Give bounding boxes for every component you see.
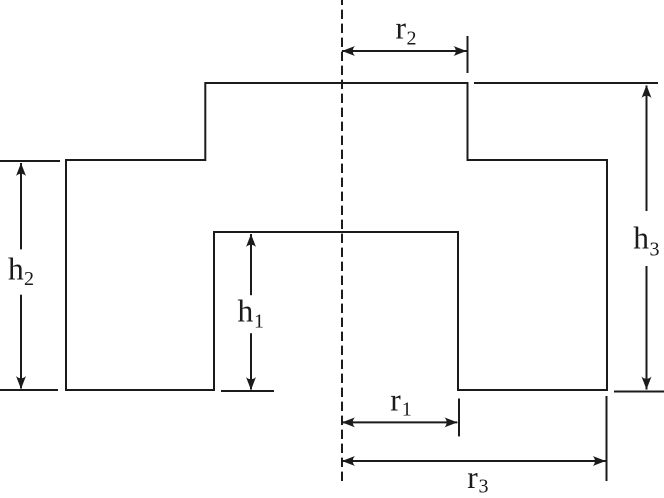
svg-text:r: r — [390, 382, 401, 417]
svg-text:h: h — [633, 221, 649, 256]
svg-text:h: h — [8, 251, 24, 286]
svg-text:3: 3 — [479, 476, 489, 498]
svg-text:r: r — [396, 11, 407, 46]
svg-text:r: r — [467, 460, 478, 495]
svg-text:1: 1 — [402, 399, 412, 421]
svg-text:h: h — [238, 294, 254, 329]
svg-text:1: 1 — [254, 311, 264, 333]
svg-text:2: 2 — [407, 28, 417, 50]
svg-text:2: 2 — [24, 268, 34, 290]
svg-text:3: 3 — [650, 239, 660, 261]
